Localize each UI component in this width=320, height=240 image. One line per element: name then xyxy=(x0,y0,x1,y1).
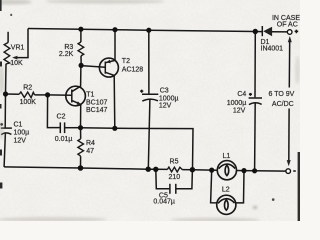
svg-text:C1: C1 xyxy=(14,122,23,129)
svg-text:AC/DC: AC/DC xyxy=(272,101,294,108)
svg-text:T1: T1 xyxy=(86,91,94,98)
svg-text:47: 47 xyxy=(86,148,94,155)
svg-text:R5: R5 xyxy=(170,159,179,166)
svg-text:C3: C3 xyxy=(160,87,169,94)
svg-text:210: 210 xyxy=(168,174,180,181)
svg-text:0.047µ: 0.047µ xyxy=(153,198,175,205)
svg-text:BC107: BC107 xyxy=(86,99,108,106)
svg-text:0.01µ: 0.01µ xyxy=(55,136,73,143)
svg-text:10K: 10K xyxy=(10,60,23,67)
svg-text:IN4001: IN4001 xyxy=(261,46,284,53)
svg-text:BC147: BC147 xyxy=(86,107,108,114)
svg-text:T2: T2 xyxy=(122,58,130,65)
svg-text:OF AC: OF AC xyxy=(277,21,298,28)
svg-text:6 TO 9V: 6 TO 9V xyxy=(268,91,294,98)
svg-text:L1: L1 xyxy=(223,153,231,160)
svg-text:R4: R4 xyxy=(86,140,95,147)
svg-text:C4: C4 xyxy=(237,91,246,98)
svg-text:VR1: VR1 xyxy=(11,45,25,52)
svg-text:12V: 12V xyxy=(159,103,172,110)
svg-text:12V: 12V xyxy=(14,137,27,144)
svg-text:1000µ: 1000µ xyxy=(227,100,247,107)
svg-text:1000µ: 1000µ xyxy=(159,96,179,103)
svg-text:AC128: AC128 xyxy=(122,67,144,74)
svg-text:C2: C2 xyxy=(57,113,66,120)
svg-text:2.2K: 2.2K xyxy=(59,51,74,58)
svg-text:100µ: 100µ xyxy=(14,130,30,137)
svg-text:12V: 12V xyxy=(233,107,246,114)
svg-text:R2: R2 xyxy=(23,85,32,92)
svg-text:100K: 100K xyxy=(20,99,37,106)
svg-text:R3: R3 xyxy=(64,44,73,51)
svg-text:L2: L2 xyxy=(222,186,230,193)
